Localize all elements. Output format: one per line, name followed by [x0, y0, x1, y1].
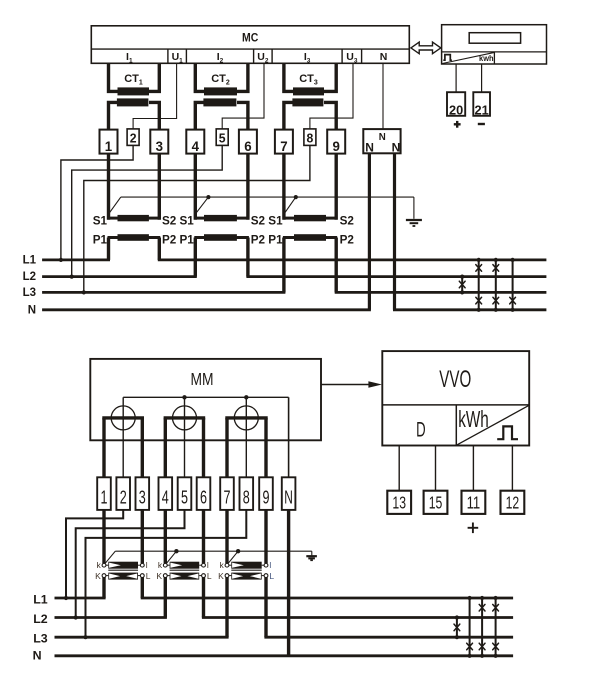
- svg-text:N: N: [365, 140, 374, 154]
- svg-text:MM: MM: [191, 369, 214, 389]
- junction dot tap on L1: [59, 258, 63, 262]
- fuse marks on lower drop line 2: [479, 604, 485, 611]
- fused drop line 1 from L1 to N: [478, 260, 480, 310]
- terminal 2 (meter voltage terminal): [127, 129, 139, 146]
- transformer TT2 primary winding bar: [170, 573, 200, 580]
- coil 2 left wire down to terminal: [164, 418, 167, 477]
- terminal 2 (lower meter): [116, 477, 130, 510]
- line L3 right segment (lower): [264, 636, 513, 639]
- TT3 terminal l circle: [262, 564, 265, 566]
- coil 1 right wire down to terminal: [141, 418, 144, 477]
- junction dot tap on L3: [82, 290, 86, 294]
- coil 3 thick current bar: [225, 416, 267, 419]
- svg-text:2: 2: [120, 487, 127, 508]
- junction dot tap on L3 (lower): [83, 635, 87, 639]
- terminal 8 (lower meter): [240, 477, 254, 510]
- junction dot bus at coil 3: [244, 395, 248, 399]
- TT3 terminal K circle: [229, 575, 232, 577]
- svg-text:20: 20: [449, 102, 463, 117]
- wire terminal 9 down to S2 of CT transformer 3: [335, 154, 338, 220]
- MC terminal-row divider line: [91, 48, 409, 50]
- indicator/display unit box: [442, 25, 547, 64]
- svg-text:N: N: [380, 51, 388, 63]
- wire terminal 7 down to S1 of CT transformer 3: [282, 154, 285, 220]
- line L3 left segment (lower): [55, 636, 229, 639]
- TT3 terminal k circle: [229, 564, 232, 566]
- TT1 terminal L circle: [138, 575, 141, 577]
- terminal 1 (meter current terminal): [100, 130, 118, 154]
- fuse mark on drop line 3: [510, 297, 516, 304]
- svg-text:P2: P2: [251, 234, 266, 247]
- terminal 5 (meter voltage terminal): [216, 129, 228, 146]
- CT2 secondary bar: [203, 98, 236, 106]
- minus sign under terminal 21: [478, 123, 485, 125]
- CT3 primary bar: [293, 87, 324, 95]
- wire K of TT3 down to L3: [225, 577, 228, 637]
- neutral wire from N block left to N line: [368, 153, 371, 309]
- svg-text:S1: S1: [93, 214, 108, 227]
- svg-text:5: 5: [219, 131, 226, 146]
- TA3 S2 stub: [325, 217, 337, 220]
- svg-text:S1: S1: [268, 214, 283, 227]
- CT1 primary bar: [118, 87, 150, 95]
- CT2 secondary right wire to terminal: [237, 102, 248, 129]
- svg-text:13: 13: [392, 493, 406, 513]
- fused drop line 2 from L1 to N: [495, 260, 497, 310]
- voltage tap wire terminal 2 to L1: [61, 145, 133, 260]
- fuse marks on lower drop line 3: [493, 604, 499, 611]
- coil 3 left wire down to terminal: [225, 418, 228, 477]
- junction dot on earthing bus at TA2: [206, 195, 210, 199]
- TA1 P1 drop wire to L1: [107, 238, 110, 260]
- svg-text:CT3: CT3: [299, 73, 318, 87]
- svg-text:7: 7: [280, 138, 288, 154]
- transformer TT3 primary winding bar: [231, 573, 261, 580]
- svg-text:8: 8: [243, 487, 250, 508]
- svg-text:l: l: [146, 560, 148, 570]
- terminal 9 (lower meter): [259, 477, 273, 510]
- terminal 9 (meter current terminal): [327, 130, 345, 154]
- neutral wire from N block right to N line: [393, 153, 396, 309]
- transformer TT1 primary winding bar: [108, 573, 138, 580]
- interface double arrow between MC and indicator: [411, 42, 441, 54]
- junction dot tap on L2 (lower): [74, 615, 78, 619]
- terminal N (lower meter): [282, 477, 296, 510]
- slant wire S1 of TA2 to earthing bus: [196, 197, 209, 214]
- terminal 8 (meter voltage terminal): [304, 129, 316, 146]
- TT2 terminal L circle: [199, 575, 202, 577]
- line L3 right segment: [335, 291, 547, 294]
- fuse marks on drop line 2: [493, 265, 499, 272]
- earth symbol (lower): [306, 555, 317, 557]
- line L3 left segment: [42, 291, 285, 294]
- junction dot tap on L1 (lower): [64, 596, 68, 600]
- wire terminal 3 down to l of TT1: [141, 510, 144, 563]
- wire VVO to terminal 15: [435, 446, 437, 492]
- svg-text:21: 21: [475, 102, 489, 117]
- svg-text:MC: MC: [242, 31, 259, 44]
- svg-text:U1: U1: [172, 51, 184, 65]
- svg-text:CT2: CT2: [211, 73, 230, 87]
- svg-text:l: l: [269, 560, 271, 570]
- svg-text:kWh: kWh: [458, 406, 489, 432]
- TA2 S1 stub: [194, 217, 205, 220]
- VVO internal horizontal divider: [382, 404, 529, 406]
- terminal 21: [473, 92, 490, 116]
- wire terminal 1 down to k of TT1: [102, 510, 105, 563]
- meter MC outer box: [91, 26, 409, 64]
- terminal 6 (meter current terminal): [239, 130, 257, 154]
- TT2 terminal K circle: [167, 575, 170, 577]
- CT3 right wire from MC: [324, 63, 336, 91]
- svg-text:N: N: [33, 648, 42, 662]
- svg-text:S2: S2: [162, 214, 177, 227]
- CT2 primary bar: [204, 87, 237, 95]
- junction dot bus at TT2: [174, 549, 178, 553]
- TT2 core line: [170, 569, 200, 571]
- terminal 3 (lower meter): [136, 477, 150, 510]
- plus sign under terminal 20: [454, 123, 461, 125]
- coil 1 thick current bar: [102, 416, 144, 419]
- svg-text:S2: S2: [251, 214, 266, 227]
- TA1 P2 drop wire to L1: [158, 238, 161, 260]
- wire terminal 9 down to l of TT3: [264, 510, 267, 563]
- CT1 right wire from MC: [149, 63, 159, 91]
- indicator sub-cell divider: [493, 52, 495, 64]
- junction dot on earthing bus at TA3: [294, 195, 298, 199]
- slant wire k of TT2 to bus: [167, 551, 177, 563]
- CT2 right wire from MC: [237, 63, 248, 91]
- svg-text:N: N: [392, 140, 401, 154]
- CT1 secondary left wire to terminal: [109, 102, 118, 129]
- arrow from MM to VVO: [321, 384, 369, 386]
- CT3 left wire from MC: [284, 63, 293, 91]
- indicator diagonal line: [442, 52, 494, 63]
- slant wire k of TT3 to bus: [228, 551, 238, 563]
- TT1 core line: [108, 569, 138, 571]
- wire terminal 4 down to S1 of CT transformer 2: [194, 154, 197, 220]
- transformer TT1 secondary winding bar: [108, 562, 138, 569]
- svg-text:I3: I3: [304, 51, 311, 65]
- TT1 terminal l circle: [138, 564, 141, 566]
- current coil circle 1: [111, 406, 135, 430]
- coil 1 left wire down to terminal: [102, 418, 105, 477]
- wire L of TT2 down to L2 outgoing: [202, 577, 205, 617]
- line L2 right segment (lower): [202, 616, 513, 619]
- pulse output symbol: [497, 426, 518, 439]
- wire from indicator to terminal 21: [481, 64, 483, 92]
- plus sign under terminal 11: [468, 527, 479, 529]
- svg-text:1: 1: [101, 487, 108, 508]
- svg-text:P1: P1: [268, 234, 283, 247]
- svg-text:k: k: [220, 560, 225, 570]
- wire terminal 6 down to l of TT2: [202, 510, 205, 563]
- svg-text:L2: L2: [23, 271, 36, 283]
- svg-text:9: 9: [333, 138, 341, 154]
- TA1 P2 stub: [148, 236, 160, 239]
- fuse mark on L2-L3 tap (lower): [454, 624, 460, 631]
- wire VVO to terminal 12: [511, 446, 513, 492]
- terminal 1 (lower meter): [97, 477, 111, 510]
- wire K of TT2 down to L2: [164, 577, 167, 617]
- transformer TT2 secondary winding bar: [170, 562, 200, 569]
- wire terminal 7 down to k of TT3: [225, 510, 228, 563]
- CT1 left wire from MC: [109, 63, 118, 91]
- TA1 S1 stub: [108, 217, 119, 220]
- earthing bus of CT secondaries: [121, 196, 414, 198]
- transformer TT3 secondary winding bar: [231, 562, 261, 569]
- voltage wire U3 to terminal 8: [310, 63, 353, 129]
- TT3 core line: [231, 569, 261, 571]
- TT1 terminal k circle: [106, 564, 109, 566]
- fuse marks on drop line 1: [476, 265, 482, 272]
- voltage tap wire terminal 5 to L2 (lower): [76, 510, 185, 618]
- svg-text:CT1: CT1: [124, 73, 143, 87]
- wire VVO to terminal 13: [398, 446, 400, 492]
- svg-text:VVO: VVO: [439, 366, 471, 393]
- svg-text:L3: L3: [33, 632, 48, 646]
- svg-text:l: l: [207, 560, 209, 570]
- pulse output symbol in indicator: [443, 55, 452, 61]
- MC cell dividers: [167, 49, 169, 63]
- line L2 left segment: [42, 275, 197, 278]
- CT1 secondary bar: [117, 98, 148, 106]
- line L2 right segment: [246, 275, 546, 278]
- line L1 right segment (lower): [141, 597, 513, 600]
- neutral wire from MC N cell to N terminal block: [382, 63, 384, 129]
- svg-text:4: 4: [162, 487, 169, 508]
- fused tap L2 to L3 (lower): [456, 618, 458, 638]
- svg-text:U2: U2: [257, 51, 269, 65]
- svg-text:7: 7: [224, 487, 231, 508]
- svg-text:4: 4: [192, 138, 200, 154]
- terminal 20: [447, 92, 465, 116]
- svg-text:P2: P2: [162, 234, 177, 247]
- current coil circle 3: [234, 406, 258, 430]
- terminal 4 (lower meter): [159, 477, 173, 510]
- fused drop line 3 from L1 to N (lower): [495, 598, 497, 656]
- TA2 P2 stub: [236, 236, 249, 239]
- svg-text:L: L: [269, 571, 274, 581]
- svg-text:k: k: [158, 560, 163, 570]
- svg-text:S2: S2: [340, 214, 355, 227]
- wire terminal 3 down to S2 of CT transformer 1: [158, 154, 161, 220]
- TA2 P2 drop wire to L2: [246, 238, 249, 277]
- voltage wire U2 to terminal 5: [222, 63, 264, 129]
- svg-text:S1: S1: [180, 214, 195, 227]
- coil 3 voltage wire through circle: [245, 397, 247, 477]
- transformer TA2 secondary winding bar: [204, 215, 237, 221]
- TT3 terminal L circle: [262, 575, 265, 577]
- svg-text:k: k: [97, 560, 102, 570]
- svg-text:N: N: [379, 132, 386, 143]
- line L1 right segment: [158, 258, 547, 261]
- svg-text:U3: U3: [346, 51, 358, 65]
- terminal 15: [424, 491, 448, 514]
- TA3 P1 drop wire to L3: [282, 238, 285, 293]
- svg-text:N: N: [284, 487, 293, 508]
- line L2 left segment (lower): [55, 616, 167, 619]
- voltage bus inside MM: [123, 396, 288, 398]
- coil 2 thick current bar: [164, 416, 206, 419]
- voltage tap wire terminal 5 to L2: [72, 145, 223, 276]
- wire L of TT3 down to L3 outgoing: [264, 577, 267, 637]
- terminal 7 (lower meter): [220, 477, 234, 510]
- voltage wire U1 to terminal 2: [133, 63, 177, 129]
- coil 2 right wire down to terminal: [202, 418, 205, 477]
- VVO internal vertical divider: [455, 405, 457, 446]
- svg-text:L: L: [146, 571, 151, 581]
- terminal 4 (meter current terminal): [186, 130, 204, 154]
- CT3 secondary left wire to terminal: [284, 102, 293, 129]
- slant wire S1 of TA3 to earthing bus: [284, 197, 296, 214]
- indicator box divider line: [442, 51, 547, 53]
- kWh cell diagonal: [457, 406, 529, 445]
- svg-text:11: 11: [467, 493, 481, 513]
- TT1 terminal K circle: [106, 575, 109, 577]
- terminal 11: [462, 491, 486, 514]
- line L1 left segment: [42, 258, 110, 261]
- bus drop to earth (lower): [311, 551, 313, 555]
- wire terminal 6 down to S2 of CT transformer 2: [246, 154, 249, 220]
- terminal 5 (lower meter): [178, 477, 192, 510]
- terminal 13: [387, 491, 411, 514]
- svg-text:K: K: [95, 571, 101, 581]
- svg-text:L1: L1: [23, 254, 37, 266]
- svg-text:L3: L3: [23, 287, 36, 299]
- CT2 secondary left wire to terminal: [195, 102, 204, 129]
- CT3 secondary bar: [292, 98, 323, 106]
- svg-text:P2: P2: [340, 234, 355, 247]
- voltage tap wire terminal 2 to L1 (lower): [66, 510, 123, 598]
- svg-text:I1: I1: [126, 51, 133, 65]
- coil 1 voltage wire through circle: [122, 397, 124, 477]
- transformer TA2 primary winding bar: [204, 234, 237, 241]
- terminal 6 (lower meter): [197, 477, 211, 510]
- junction dot bus at TT3: [236, 549, 240, 553]
- svg-text:N: N: [28, 305, 36, 317]
- TA1 S2 stub: [148, 217, 160, 220]
- voltage tap wire terminal 8 to L3: [84, 145, 310, 292]
- terminal 12: [501, 491, 525, 514]
- line N right segment: [393, 308, 546, 311]
- svg-text:D: D: [416, 418, 426, 442]
- line L1 left segment (lower): [55, 597, 106, 600]
- wire terminal N down to N line: [287, 510, 290, 656]
- fused tap L2 to L3: [461, 277, 463, 293]
- slant wire S1 of TA1 to earthing bus: [109, 197, 121, 214]
- CT2 left wire from MC: [195, 63, 204, 91]
- TA3 P2 drop wire to L3: [335, 238, 338, 293]
- fuse mark on lower drop line 1: [467, 643, 473, 650]
- svg-text:3: 3: [139, 487, 146, 508]
- TA2 P1 stub: [194, 236, 205, 239]
- svg-text:P1: P1: [93, 234, 108, 247]
- CT1 secondary right wire to terminal: [149, 102, 159, 129]
- output unit VVO box: [382, 351, 529, 445]
- wire from indicator to terminal 20: [455, 64, 457, 92]
- svg-text:12: 12: [506, 493, 520, 513]
- fused drop line 2 from L1 to N (lower): [481, 598, 483, 656]
- ground symbol: [406, 219, 422, 221]
- voltage tap wire terminal 8 to L3 (lower): [86, 510, 247, 637]
- wire VVO to terminal 11: [472, 446, 474, 492]
- wire terminal 1 down to S1 of CT transformer 1: [107, 154, 110, 220]
- fused drop line 3 from L1 to N: [512, 260, 514, 310]
- junction dot tap on L2: [70, 275, 74, 279]
- current coil circle 2: [173, 406, 197, 430]
- transformer TA3 secondary winding bar: [294, 215, 326, 221]
- svg-text:5: 5: [181, 487, 188, 508]
- TT2 terminal l circle: [199, 564, 202, 566]
- TA1 P1 stub: [108, 236, 119, 239]
- svg-text:6: 6: [200, 487, 207, 508]
- wire terminal 4 down to k of TT2: [164, 510, 167, 563]
- line N left segment: [42, 308, 371, 311]
- terminal 7 (meter current terminal): [275, 130, 293, 154]
- svg-text:1: 1: [105, 138, 113, 154]
- coil 2 voltage wire through circle: [184, 397, 186, 477]
- TA3 S1 stub: [283, 217, 295, 220]
- transformer TA1 primary winding bar: [118, 234, 149, 241]
- TA3 P1 stub: [283, 236, 295, 239]
- TA3 P2 stub: [325, 236, 337, 239]
- transformer TA3 primary winding bar: [294, 234, 326, 241]
- coil 3 right wire down to terminal: [264, 418, 267, 477]
- terminal 3 (meter current terminal): [150, 130, 168, 154]
- svg-text:K: K: [218, 571, 224, 581]
- svg-text:3: 3: [156, 138, 164, 154]
- wire K of TT1 down to L1: [102, 577, 105, 598]
- slant wire k of TT1 to bus: [105, 551, 115, 563]
- CT3 secondary right wire to terminal: [324, 102, 336, 129]
- svg-text:L2: L2: [33, 612, 48, 626]
- svg-text:kwh: kwh: [479, 54, 494, 63]
- meter MM box: [90, 359, 321, 440]
- terminal block N N N: [363, 129, 400, 153]
- TA2 S2 stub: [236, 217, 249, 220]
- fuse mark on L2-L3 tap: [459, 281, 465, 288]
- svg-text:P1: P1: [180, 234, 195, 247]
- svg-text:I2: I2: [217, 51, 224, 65]
- svg-text:L: L: [207, 571, 212, 581]
- wire L of TT1 down to L1 outgoing: [141, 577, 144, 598]
- svg-text:9: 9: [263, 487, 270, 508]
- line N (lower): [55, 654, 514, 657]
- display window rectangle: [469, 33, 520, 44]
- earthing bus drop wire: [413, 197, 415, 219]
- svg-text:2: 2: [130, 131, 137, 146]
- svg-text:6: 6: [244, 138, 252, 154]
- TA2 P1 drop wire to L2: [194, 238, 197, 277]
- junction dot bus at coil 2: [182, 395, 186, 399]
- svg-text:L1: L1: [33, 592, 48, 606]
- svg-text:15: 15: [429, 493, 443, 513]
- svg-text:K: K: [156, 571, 162, 581]
- TT2 terminal k circle: [167, 564, 170, 566]
- bus drop wire to terminal N: [288, 397, 290, 477]
- fused drop line 1 from L1 to N (lower): [469, 598, 471, 656]
- transformer TA1 secondary winding bar: [118, 215, 149, 221]
- earthing bus of TT secondaries (lower): [115, 550, 311, 552]
- svg-text:8: 8: [307, 131, 314, 146]
